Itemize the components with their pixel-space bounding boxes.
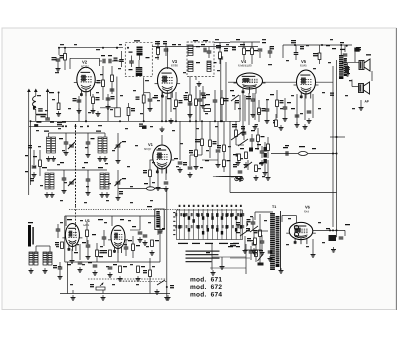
svg-text:mod. 674: mod. 674 <box>190 292 222 299</box>
svg-text:6AV6: 6AV6 <box>83 224 90 227</box>
svg-text:mod. 672: mod. 672 <box>190 284 222 291</box>
svg-text:6.M5: 6.M5 <box>300 64 307 68</box>
svg-text:6X4: 6X4 <box>304 210 309 214</box>
svg-text:6CQ7: 6CQ7 <box>144 147 152 151</box>
svg-text:U1: U1 <box>85 219 90 223</box>
svg-text:6.M5/EL80: 6.M5/EL80 <box>238 64 252 68</box>
svg-text:6CQ7: 6CQ7 <box>81 65 89 69</box>
svg-text:6T86: 6T86 <box>171 64 178 68</box>
svg-text:mod. 671: mod. 671 <box>190 277 222 284</box>
svg-text:T1: T1 <box>272 205 276 209</box>
